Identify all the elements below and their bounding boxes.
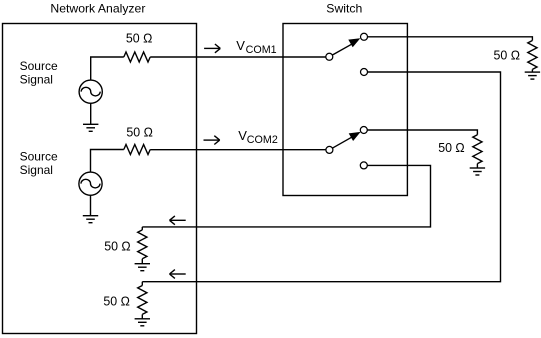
svg-text:Signal: Signal xyxy=(20,163,53,177)
value label: 50 ohm (R5) xyxy=(104,238,131,253)
resistor R2 xyxy=(124,145,150,155)
wire: resistor R5 to ground xyxy=(141,259,143,264)
ground (resistor R3) xyxy=(525,72,540,79)
svg-text:COM1: COM1 xyxy=(246,44,277,56)
wire: resistor R2 to switch S2 common xyxy=(150,149,326,151)
wire: return wire 2 into resistor R6 xyxy=(141,282,143,286)
wire: S2 throw 2 down and back to resistor R5 (return path) xyxy=(142,165,430,227)
wire: resistor R4 to ground xyxy=(476,164,478,168)
svg-text:50 Ω: 50 Ω xyxy=(103,293,130,308)
ground (resistor R5) xyxy=(135,264,150,271)
value label: 50 ohm (R6) xyxy=(103,293,130,308)
value label: 50 ohm (R2) xyxy=(126,124,153,139)
switch S2 common pole contact xyxy=(326,146,333,153)
svg-text:50 Ω: 50 Ω xyxy=(126,124,153,139)
network analyzer enclosure box xyxy=(3,24,197,334)
wire: S2 throw 1 to resistor R4 xyxy=(367,130,477,135)
switch S2 arm with arrowhead xyxy=(332,132,360,148)
signal flow arrow right (VCOM2) xyxy=(204,136,220,145)
resistor R5 xyxy=(138,230,147,259)
switch enclosure box xyxy=(283,24,407,196)
resistor R3 xyxy=(528,41,537,70)
label: Source Signal (V1) xyxy=(20,59,58,87)
resistor R4 xyxy=(473,135,482,164)
svg-text:Switch: Switch xyxy=(326,1,362,15)
switch S2 throw contact 1 xyxy=(360,127,367,134)
svg-text:Signal: Signal xyxy=(20,73,53,87)
switch S2 throw contact 2 xyxy=(360,162,367,169)
label: Switch xyxy=(326,1,362,15)
svg-text:Source: Source xyxy=(20,59,58,73)
ground (resistor R4) xyxy=(470,168,485,175)
label: Network Analyzer xyxy=(50,1,145,15)
label: Source Signal (V2) xyxy=(20,149,58,177)
value label: 50 ohm (R1) xyxy=(126,31,153,46)
switch S1 throw contact 1 xyxy=(361,33,368,40)
switch S1 arm with arrowhead xyxy=(332,38,360,55)
value label: 50 ohm (R3) xyxy=(494,47,521,62)
signal flow arrow left (return 1) xyxy=(170,216,186,225)
svg-text:50 Ω: 50 Ω xyxy=(104,238,131,253)
wire: source V1 to resistor R1 xyxy=(91,57,124,80)
value label: 50 ohm (R4) xyxy=(438,140,465,155)
wire: S1 throw 1 to resistor R3 xyxy=(367,37,532,41)
switch S1 throw contact 2 xyxy=(361,69,368,76)
wire: return wire 1 into resistor R5 xyxy=(141,227,143,230)
ground (resistor R6) xyxy=(135,319,150,326)
svg-text:COM2: COM2 xyxy=(247,134,278,146)
wire: resistor R1 to switch S1 common xyxy=(150,56,326,58)
svg-text:Source: Source xyxy=(20,149,58,163)
wire: resistor R6 to ground xyxy=(141,314,143,318)
wire: source V1 to ground xyxy=(90,103,92,125)
wire: S1 throw 2 down and back to resistor R6 (return path) xyxy=(142,72,500,282)
resistor R1 xyxy=(124,52,150,62)
ground (source V1) xyxy=(83,124,98,131)
wire: source V2 to ground xyxy=(90,195,92,216)
signal flow arrow right (VCOM1) xyxy=(204,44,220,53)
svg-text:V: V xyxy=(236,38,245,53)
svg-text:50 Ω: 50 Ω xyxy=(494,47,521,62)
wire: resistor R3 to ground xyxy=(531,69,533,72)
wire: source V2 to resistor R2 xyxy=(91,150,124,173)
svg-text:50 Ω: 50 Ω xyxy=(126,31,153,46)
signal flow arrow left (return 2) xyxy=(170,270,186,279)
resistor R6 xyxy=(138,286,147,315)
AC source V2 xyxy=(79,172,102,195)
switch S1 common pole contact xyxy=(326,53,333,60)
svg-text:Network Analyzer: Network Analyzer xyxy=(50,1,145,15)
ground (source V2) xyxy=(83,216,98,223)
AC source V1 xyxy=(79,80,102,103)
svg-text:50 Ω: 50 Ω xyxy=(438,140,465,155)
node label VCOM1 xyxy=(236,38,276,56)
node label VCOM2 xyxy=(238,128,278,146)
